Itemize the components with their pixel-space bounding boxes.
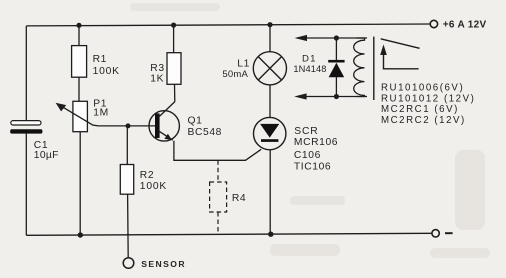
svg-text:+6 A 12V: +6 A 12V: [443, 20, 487, 31]
resistor R1: [72, 46, 120, 78]
svg-text:SENSOR: SENSOR: [141, 259, 186, 269]
node dot bottom rail SCR: [268, 232, 273, 237]
svg-text:Q1: Q1: [188, 115, 203, 126]
svg-text:R4: R4: [232, 193, 246, 204]
wire P1 bottom to rail: [79, 132, 81, 236]
svg-text:D1: D1: [302, 53, 317, 64]
wire R1-P1: [78, 77, 80, 101]
svg-text:RU101006(6V): RU101006(6V): [381, 82, 464, 93]
svg-text:L1: L1: [237, 58, 250, 69]
wire bottom rail: [26, 233, 432, 235]
diode D1: [293, 38, 344, 97]
relay contact actuator arrow: [380, 44, 418, 68]
wire SCR cathode: [269, 150, 271, 235]
svg-text:MC2RC1 (6V): MC2RC1 (6V): [381, 104, 459, 115]
node dot diode top: [334, 35, 339, 40]
relay type list: [381, 82, 475, 126]
svg-text:1K: 1K: [150, 73, 164, 84]
node dot top rail / R3: [171, 23, 176, 28]
terminal minus: [432, 230, 453, 237]
wire left vertical (below C1): [25, 134, 27, 236]
wire relay bottom with arrow: [294, 93, 367, 99]
wire R2 bottom to sensor: [127, 194, 130, 258]
lamp L1: [222, 52, 286, 85]
wire R1 top lead: [78, 25, 80, 45]
wire L1 to SCR: [269, 85, 271, 118]
svg-text:100K: 100K: [93, 66, 120, 77]
terminal SENSOR: [123, 258, 186, 269]
capacitor C1: [10, 121, 58, 161]
relay coil: [354, 38, 365, 97]
svg-text:1M: 1M: [93, 108, 109, 119]
svg-text:R1: R1: [93, 54, 107, 65]
resistor R2: [120, 165, 167, 195]
wire R3 top lead: [173, 25, 175, 53]
svg-text:100K: 100K: [140, 181, 167, 192]
wire left vertical (above C1): [25, 26, 27, 121]
thyristor SCR: [254, 117, 339, 172]
transistor Q1: [149, 102, 222, 142]
svg-text:TIC106: TIC106: [294, 161, 331, 172]
node dot bottom rail P1: [78, 232, 83, 237]
svg-text:C106: C106: [294, 150, 321, 161]
wire L1 top lead: [269, 25, 271, 52]
wire relay top with arrow: [295, 35, 367, 41]
wire R3 bottom / collector: [174, 84, 176, 101]
relay contact blade: [381, 39, 420, 49]
svg-text:50mA: 50mA: [222, 69, 248, 80]
svg-text:10µF: 10µF: [34, 150, 59, 161]
node dot top rail / L1: [267, 22, 272, 27]
wire top rail: [26, 24, 430, 26]
svg-text:SCR: SCR: [294, 126, 318, 137]
svg-text:R2: R2: [140, 170, 154, 181]
svg-text:1N4148: 1N4148: [293, 64, 326, 74]
potentiometer P1: [56, 99, 109, 132]
svg-text:MC2RC2 (12V): MC2RC2 (12V): [381, 115, 466, 126]
node dot base junction: [126, 123, 131, 128]
resistor R3: [150, 53, 181, 85]
relay core line: [373, 37, 375, 100]
svg-text:BC548: BC548: [188, 127, 222, 138]
svg-text:R3: R3: [150, 63, 164, 74]
node dot diode bottom: [334, 94, 339, 99]
wire P1 wiper to base node: [93, 124, 155, 127]
svg-text:RU101012 (12V): RU101012 (12V): [381, 94, 475, 105]
wire emitter to gate: [174, 141, 261, 161]
wire base node to R2: [126, 126, 128, 165]
terminal +6/12V: [430, 20, 486, 31]
resistor R4 (dashed, optional): [210, 160, 227, 234]
svg-text:MCR106: MCR106: [294, 137, 338, 148]
node dot top rail / R1: [76, 23, 81, 28]
